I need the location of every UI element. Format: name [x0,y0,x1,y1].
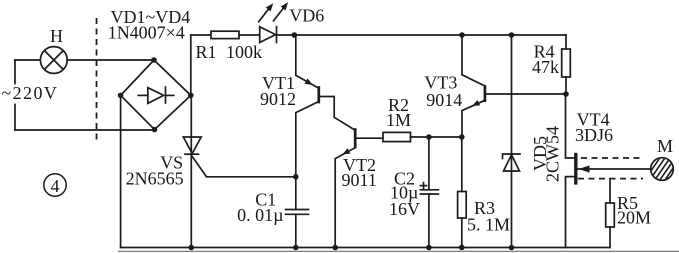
node VD5 rail [509,245,515,251]
wire VT2 base lead [356,137,383,139]
node R3 rail [459,245,465,251]
svg-text:2N6565: 2N6565 [126,169,184,189]
svg-text:9012: 9012 [260,89,296,109]
wire R5 bottom lead [609,227,611,248]
node VT3 emitter R3 [459,134,465,140]
svg-text:1N4007×4: 1N4007×4 [108,22,185,42]
node bridge right [188,93,194,99]
dashed link drain to probe [581,157,643,159]
node bridge bottom [152,127,158,133]
svg-text:100k: 100k [226,42,262,62]
svg-text:9014: 9014 [426,90,462,110]
svg-text:4: 4 [51,176,60,196]
LED VD6 [259,2,288,42]
wire bottom rail [121,247,610,249]
svg-text:16V: 16V [389,199,420,219]
node C2 rail [426,245,432,251]
node VT3 collector tap [459,32,465,38]
wire VT1 emitter lead [296,35,318,88]
wire AC bottom [15,129,155,131]
svg-text:H: H [50,26,63,46]
wire DC plus up [190,35,192,95]
transistor VT1 emitter arrow [305,78,313,84]
dashed link source to probe [578,178,643,180]
thyristor VS [183,95,295,247]
node VD5 tap [509,32,515,38]
bridge rectifier VD1~VD4 [121,60,191,130]
wire top rail segment 3 [277,34,567,36]
wire R2 to VT3 emitter node [411,136,462,138]
wire VT4 source lead [566,177,575,248]
wire VT3 base [486,93,566,95]
svg-text:M: M [657,136,673,156]
node bridge top [151,57,157,63]
svg-text:9011: 9011 [342,170,377,190]
wire VT1 base to VT2 collector [320,97,355,130]
wire AC top left lead [15,59,40,61]
wire DC minus vertical [120,95,122,247]
svg-text:47k: 47k [532,57,559,77]
resistor R2 [383,132,411,141]
node LED output [292,32,298,38]
scan artifact line [118,250,679,252]
node VS cathode rail [189,245,195,251]
wire VT1 collector [296,102,319,177]
wire VT4 drain lead [566,94,575,158]
capacitor C1 [286,177,309,248]
wire top rail segment 1 [191,34,211,36]
node R2 C2 junction [426,134,432,140]
wire R5 top lead [609,179,611,203]
svg-text:VD6: VD6 [289,6,324,26]
wire top rail segment 2 [239,34,260,36]
node C1 rail [293,245,299,251]
FET gate arrow [579,165,590,172]
node VT2 emitter rail [332,245,338,251]
wire VT3 emitter [462,100,485,137]
svg-text:1M: 1M [386,110,411,130]
transistor VT2 emitter arrow [343,148,351,154]
svg-text:3DJ6: 3DJ6 [575,125,613,145]
transistor VT1 base bar [317,86,320,103]
svg-text:20M: 20M [617,208,651,228]
dashed separator [96,18,98,141]
zener diode VD5 [503,35,521,248]
capacitor C2 electrolytic [420,137,439,248]
node R4 VT3 base VT4 drain [563,91,569,97]
svg-text:5. 1M: 5. 1M [467,215,510,235]
resistor R4 [562,49,571,77]
wire R4 top lead [565,35,567,49]
lamp H [40,47,67,74]
wire VT4 gate from probe [578,168,651,170]
svg-text:R1: R1 [196,42,217,62]
wire AC left vertical [14,60,16,130]
node bridge left [118,93,124,99]
resistor R3 [458,137,467,248]
figure number 4 [44,174,66,196]
node VS gate junction [293,174,299,180]
resistor R5 [606,203,615,227]
transistor VT2 base bar [354,128,357,148]
transistor VT3 emitter arrow [472,100,480,106]
svg-text:0. 01µ: 0. 01µ [237,205,283,225]
FET VT4 channel bar [574,153,577,185]
wire lamp to bridge top [67,59,154,61]
svg-text:2CW54: 2CW54 [543,126,563,182]
wire VT2 emitter [335,148,355,248]
wire R4 bottom lead [565,77,567,94]
transistor VT3 base bar [484,85,487,102]
wire VT3 collector [462,35,485,86]
probe M [643,149,679,196]
resistor R1 [211,31,239,38]
svg-text:~220V: ~220V [2,83,59,103]
